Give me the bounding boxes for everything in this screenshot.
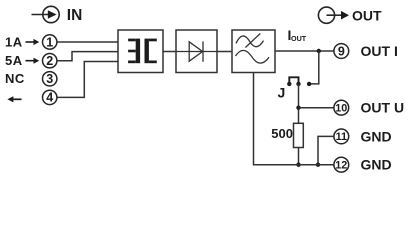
filter symbol bottom sine [236, 50, 270, 63]
svg-text:IN: IN [67, 7, 83, 24]
terminal 2 [43, 54, 57, 69]
filter box [232, 30, 275, 73]
wire jumper down to OUT U node [298, 84, 300, 123]
wire node to jumper pin [309, 51, 319, 84]
node GND riser [316, 163, 320, 167]
jumper J bracket [289, 77, 298, 84]
terminal 11 [334, 129, 349, 144]
terminal 12 [334, 157, 349, 172]
node OUT U [296, 106, 300, 110]
transformer symbol [128, 39, 157, 64]
diode D1 [176, 41, 217, 61]
node resistor-rail [296, 163, 300, 167]
wire resistor to ground rail [298, 148, 300, 165]
svg-text:OUT: OUT [352, 8, 382, 24]
jumper pin node [307, 82, 311, 86]
wire filter bottom to ground rail [254, 73, 334, 165]
wire terminal1 to transformer [57, 41, 118, 43]
wire terminal2 to transformer [57, 52, 118, 61]
resistor 500 [294, 123, 304, 147]
svg-text:1: 1 [46, 35, 53, 49]
terminal 4 [43, 90, 57, 104]
svg-text:4: 4 [46, 91, 53, 105]
svg-text:GND: GND [361, 157, 392, 173]
svg-text:12: 12 [335, 160, 347, 172]
filter symbol top sine [236, 36, 264, 47]
svg-text:10: 10 [335, 103, 347, 115]
rectifier box [176, 30, 217, 73]
svg-text:11: 11 [336, 131, 347, 143]
arrow into terminal 2 [26, 60, 35, 62]
svg-text:OUT: OUT [291, 34, 307, 43]
svg-text:OUT I: OUT I [361, 43, 398, 59]
terminal 10 [334, 100, 349, 115]
wire filter to OUT I terminal [275, 50, 334, 52]
svg-text:1A: 1A [5, 34, 23, 49]
node on OUT I wire [317, 49, 321, 53]
arrow out of terminal 4 [13, 98, 22, 100]
wire transformer to rectifier [163, 51, 176, 53]
terminal 9 [334, 44, 349, 59]
terminal 3 [43, 72, 57, 86]
terminal 1 [43, 35, 57, 50]
svg-text:OUT U: OUT U [361, 100, 405, 116]
IN flow icon [32, 6, 60, 22]
jumper pin left [287, 82, 291, 86]
filter symbol slash [245, 34, 260, 48]
wire terminal 11 to rail [318, 136, 334, 164]
wire terminal4 to transformer [57, 62, 118, 98]
svg-text:9: 9 [338, 44, 345, 58]
OUT flow icon [318, 7, 342, 23]
svg-text:3: 3 [46, 72, 53, 86]
svg-text:GND: GND [361, 128, 392, 144]
transformer box U1 [118, 30, 163, 73]
svg-text:5A: 5A [5, 53, 23, 68]
wire rectifier to filter [217, 51, 232, 53]
svg-text:2: 2 [46, 54, 53, 68]
wire node to terminal 10 [299, 107, 335, 109]
arrow into terminal 1 [26, 41, 35, 43]
svg-text:500: 500 [271, 126, 293, 141]
jumper pin right [296, 82, 300, 86]
svg-text:J: J [278, 84, 286, 100]
svg-text:NC: NC [5, 71, 25, 86]
